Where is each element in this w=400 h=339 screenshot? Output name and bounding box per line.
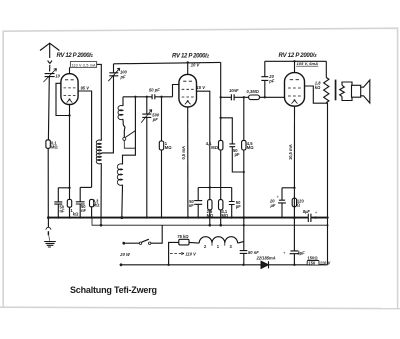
- svg-text:pF: pF: [152, 117, 159, 122]
- svg-text:15 V: 15 V: [197, 85, 207, 90]
- svg-text:kΩ: kΩ: [315, 85, 321, 90]
- svg-text:105 V, 6mA: 105 V, 6mA: [297, 61, 319, 66]
- svg-text:10,5 mA: 10,5 mA: [288, 144, 293, 160]
- svg-text:Schaltung Tefi-Zwerg: Schaltung Tefi-Zwerg: [70, 285, 157, 295]
- svg-text:20 W: 20 W: [119, 252, 131, 257]
- svg-text:MΩ: MΩ: [207, 213, 214, 218]
- svg-text:MΩ: MΩ: [211, 145, 218, 150]
- svg-text:110 V: 110 V: [186, 252, 198, 257]
- svg-text:8µF: 8µF: [298, 251, 306, 256]
- svg-text:pF: pF: [268, 78, 275, 83]
- svg-text:10: 10: [55, 74, 60, 79]
- svg-text:µF: µF: [270, 203, 276, 208]
- svg-text:pF: pF: [235, 152, 241, 157]
- svg-text:0,5 mA: 0,5 mA: [181, 146, 186, 159]
- svg-text:RV 12 P 2000/3: RV 12 P 2000/3: [279, 53, 317, 59]
- svg-text:+: +: [277, 195, 280, 200]
- svg-text:kΩ: kΩ: [73, 212, 79, 217]
- svg-text:22/185mA: 22/185mA: [256, 255, 276, 260]
- svg-text:pF: pF: [236, 204, 242, 209]
- svg-text:nF: nF: [60, 209, 66, 214]
- svg-text:110 V: 110 V: [320, 260, 332, 265]
- svg-text:75 kΩ: 75 kΩ: [177, 234, 189, 239]
- svg-text:RV 12 P 2000/1: RV 12 P 2000/1: [57, 53, 94, 59]
- svg-text:nF: nF: [81, 208, 87, 213]
- svg-text:95 V: 95 V: [81, 86, 91, 91]
- svg-text:8µF: 8µF: [303, 209, 311, 214]
- svg-text:110 V·2,5 mA: 110 V·2,5 mA: [72, 63, 97, 67]
- svg-text:50 nF: 50 nF: [248, 250, 259, 255]
- svg-text:50 pF: 50 pF: [149, 87, 160, 92]
- svg-text:nF: nF: [189, 203, 195, 208]
- svg-text:150: 150: [308, 260, 316, 265]
- svg-text:10nF: 10nF: [229, 88, 239, 93]
- svg-text:MΩ: MΩ: [93, 203, 100, 208]
- svg-text:+: +: [283, 251, 286, 256]
- svg-text:+: +: [315, 210, 318, 215]
- svg-text:pF: pF: [120, 75, 127, 80]
- svg-text:MΩ: MΩ: [165, 145, 172, 150]
- svg-text:0,3MΩ: 0,3MΩ: [247, 89, 260, 94]
- svg-text:RV 12 P 2000/2: RV 12 P 2000/2: [172, 54, 209, 60]
- svg-text:10 V: 10 V: [191, 63, 201, 68]
- svg-text:MΩ: MΩ: [247, 145, 254, 150]
- svg-text:MΩ: MΩ: [51, 144, 58, 149]
- svg-text:MΩ: MΩ: [222, 213, 229, 218]
